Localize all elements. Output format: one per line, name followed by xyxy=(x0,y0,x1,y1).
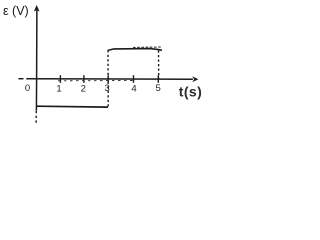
svg-text:5: 5 xyxy=(156,83,161,94)
svg-text:0: 0 xyxy=(25,83,30,94)
svg-text:2: 2 xyxy=(81,84,86,95)
svg-text:3: 3 xyxy=(105,83,110,94)
svg-text:4: 4 xyxy=(131,84,136,95)
svg-text:1: 1 xyxy=(56,84,61,95)
svg-text:t(s): t(s) xyxy=(179,83,202,99)
svg-text:ε (V): ε (V) xyxy=(3,4,29,18)
